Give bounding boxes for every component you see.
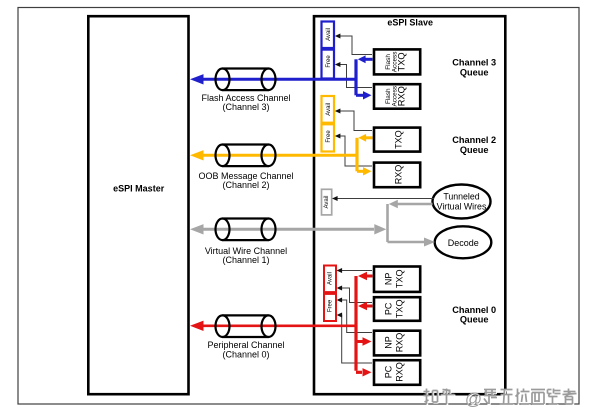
svg-text:RXQ: RXQ xyxy=(395,362,405,382)
svg-text:Avail: Avail xyxy=(324,196,330,209)
svg-text:Tunneled: Tunneled xyxy=(443,191,479,201)
svg-text:Avail: Avail xyxy=(328,272,334,285)
svg-text:(Channel 1): (Channel 1) xyxy=(222,255,269,265)
svg-text:NP: NP xyxy=(383,273,393,286)
svg-text:Avail: Avail xyxy=(326,103,332,116)
svg-text:PC: PC xyxy=(383,365,393,378)
svg-text:Free: Free xyxy=(326,55,332,68)
svg-text:Queue: Queue xyxy=(460,68,489,78)
svg-text:Virtual Wires: Virtual Wires xyxy=(437,202,487,212)
svg-text:TXQ: TXQ xyxy=(397,52,407,71)
svg-text:Avail: Avail xyxy=(326,28,332,41)
svg-text:Channel 3: Channel 3 xyxy=(452,58,496,68)
svg-text:(Channel 3): (Channel 3) xyxy=(222,102,269,112)
svg-text:RXQ: RXQ xyxy=(397,86,407,106)
svg-text:eSPI Slave: eSPI Slave xyxy=(387,18,433,28)
svg-text:NP: NP xyxy=(383,336,393,349)
svg-text:Free: Free xyxy=(328,299,334,312)
svg-text:(Channel 0): (Channel 0) xyxy=(222,349,269,359)
svg-text:Free: Free xyxy=(326,130,332,143)
svg-text:(Channel 2): (Channel 2) xyxy=(222,180,269,190)
svg-text:RXQ: RXQ xyxy=(394,165,404,185)
svg-text:Decode: Decode xyxy=(448,238,479,248)
svg-text:Queue: Queue xyxy=(460,145,489,155)
svg-text:PC: PC xyxy=(383,302,393,315)
svg-text:Channel 2: Channel 2 xyxy=(452,135,496,145)
svg-text:TXQ: TXQ xyxy=(394,130,404,149)
svg-text:eSPI Master: eSPI Master xyxy=(113,184,165,194)
svg-text:@: @ xyxy=(465,390,482,409)
svg-text:RXQ: RXQ xyxy=(395,333,405,353)
svg-text:TXQ: TXQ xyxy=(395,300,405,319)
svg-text:TXQ: TXQ xyxy=(395,270,405,289)
svg-text:Queue: Queue xyxy=(460,315,489,325)
svg-text:Channel 0: Channel 0 xyxy=(452,305,496,315)
